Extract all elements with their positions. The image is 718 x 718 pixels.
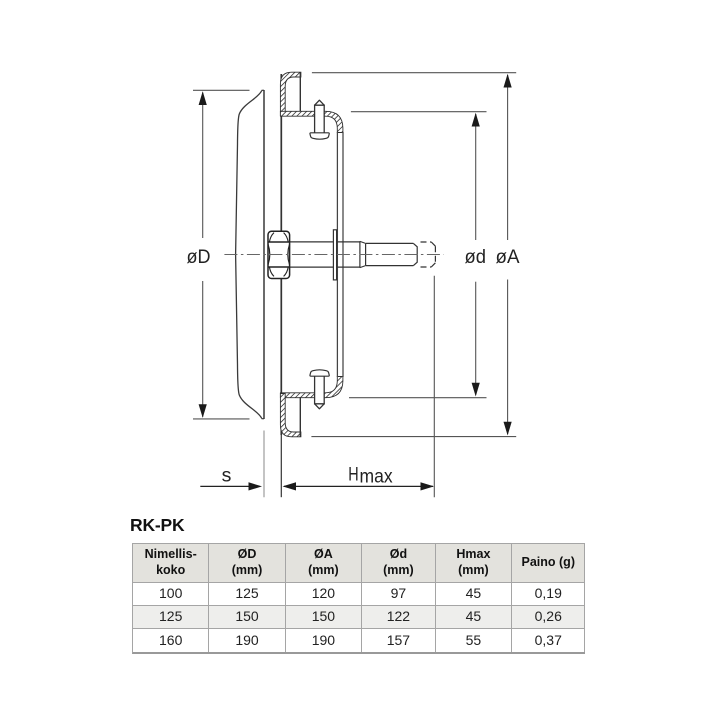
bottom pin tip <box>315 404 325 409</box>
disc top edge <box>262 89 264 91</box>
dim øD line <box>202 93 204 239</box>
product title <box>130 515 184 536</box>
svg-text:H: H <box>348 463 358 485</box>
dim ød line <box>475 114 477 240</box>
bolt shaft between nut and washer <box>290 241 360 243</box>
dim Hmax left ext line (flange plane, below curl) <box>280 435 282 497</box>
washer <box>333 230 336 280</box>
center line <box>224 254 443 256</box>
disc bottom edge <box>262 418 264 420</box>
bolt taper <box>360 241 366 267</box>
top pin (rivet) shaft <box>315 104 325 133</box>
dim øD bottom tick <box>193 418 250 420</box>
dim øD arrows <box>199 91 207 105</box>
bolt chamfer <box>413 243 417 265</box>
hex nut <box>268 231 290 278</box>
disc plate (valve disc) right edge <box>263 90 265 419</box>
collar outer wall line <box>280 74 282 435</box>
bottom pin head <box>310 370 329 376</box>
svg-text:ød: ød <box>465 246 487 268</box>
svg-text:øD: øD <box>187 246 211 268</box>
top pin head <box>310 133 329 139</box>
dim s arrow <box>249 482 263 490</box>
dim s line <box>200 485 258 487</box>
dim øA bottom ext line <box>311 436 516 438</box>
bolt step <box>359 241 361 268</box>
top flange face strip (hatched) <box>280 111 343 132</box>
bottom curl cut edge <box>299 397 301 437</box>
bolt phantom extension (dashed) <box>421 242 436 267</box>
disc plate left profile <box>236 91 262 419</box>
dim Hmax line <box>284 485 433 487</box>
dim s ext line (disc face) <box>263 431 265 498</box>
top pin tip <box>315 100 325 105</box>
svg-text:s: s <box>222 464 232 486</box>
dim Hmax arrows <box>283 482 297 490</box>
bottom flange face strip (hatched) <box>280 377 343 398</box>
dim Hmax right ext line <box>433 276 435 498</box>
dim øA line <box>507 75 509 240</box>
dim ød top ext line <box>351 111 487 113</box>
dim øA arrows <box>504 74 512 88</box>
bolt shoulder line <box>365 243 367 266</box>
svg-text:max: max <box>360 465 393 487</box>
bottom pin (rivet) shaft <box>315 376 325 405</box>
dim ød bottom ext line <box>349 397 487 399</box>
top curl cut edge <box>299 73 301 113</box>
dim øA top ext line <box>312 72 516 74</box>
top curl (rolled flange lip, hatched) <box>280 72 301 115</box>
dim ød arrows <box>472 113 480 127</box>
collar inner wall lines <box>336 132 338 377</box>
dim øD top tick <box>193 89 250 91</box>
svg-text:øA: øA <box>496 246 520 268</box>
bolt outer section <box>366 242 413 244</box>
dimension table <box>132 543 585 654</box>
bottom curl (rolled flange lip, hatched) <box>280 394 301 437</box>
